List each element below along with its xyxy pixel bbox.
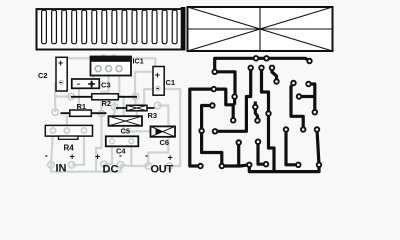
svg-text:+: + xyxy=(155,70,160,80)
svg-text:-: - xyxy=(119,151,122,161)
svg-text:+: + xyxy=(58,58,63,68)
PCB copper pattern seen through board (component side, grey mirror) xyxy=(48,55,180,172)
svg-text:C3: C3 xyxy=(101,81,111,90)
resistor R4 (trimmer) xyxy=(45,125,92,152)
capacitor C2 xyxy=(38,57,67,91)
svg-text:+: + xyxy=(95,152,100,162)
IC U1 (IC1) xyxy=(91,57,144,76)
svg-text:C6: C6 xyxy=(160,138,170,147)
node IN terminal xyxy=(45,151,75,175)
capacitor C6 xyxy=(151,126,176,147)
svg-text:C5: C5 xyxy=(121,127,131,136)
svg-text:C1: C1 xyxy=(166,78,176,87)
capacitor C1 xyxy=(153,67,175,96)
heatsink xyxy=(37,7,186,51)
svg-text:+: + xyxy=(70,152,75,162)
svg-text:-: - xyxy=(45,151,48,161)
capacitor C3 xyxy=(72,79,111,90)
svg-text:R1: R1 xyxy=(77,102,87,111)
svg-text:OUT: OUT xyxy=(151,164,174,176)
svg-text:+: + xyxy=(168,153,173,163)
svg-text:DC: DC xyxy=(103,164,119,176)
transformer/bridge block (crossed box) xyxy=(188,7,333,51)
svg-text:R3: R3 xyxy=(148,111,158,120)
resistor R3 xyxy=(116,105,157,120)
capacitor C4 xyxy=(106,136,139,155)
resistor R2 xyxy=(71,94,137,108)
node OUT terminal xyxy=(145,151,173,176)
capacitor C5 xyxy=(109,116,143,135)
svg-text:C2: C2 xyxy=(38,71,48,80)
node DC terminal xyxy=(95,151,122,176)
svg-text:IN: IN xyxy=(56,163,67,175)
PCB copper pattern (solder side, black) xyxy=(190,55,322,172)
svg-text:-: - xyxy=(145,151,148,161)
svg-text:IC1: IC1 xyxy=(133,57,144,66)
svg-text:-: - xyxy=(59,77,62,87)
svg-text:R2: R2 xyxy=(102,99,112,108)
resistor R1 xyxy=(61,102,107,117)
svg-text:-: - xyxy=(156,83,159,93)
